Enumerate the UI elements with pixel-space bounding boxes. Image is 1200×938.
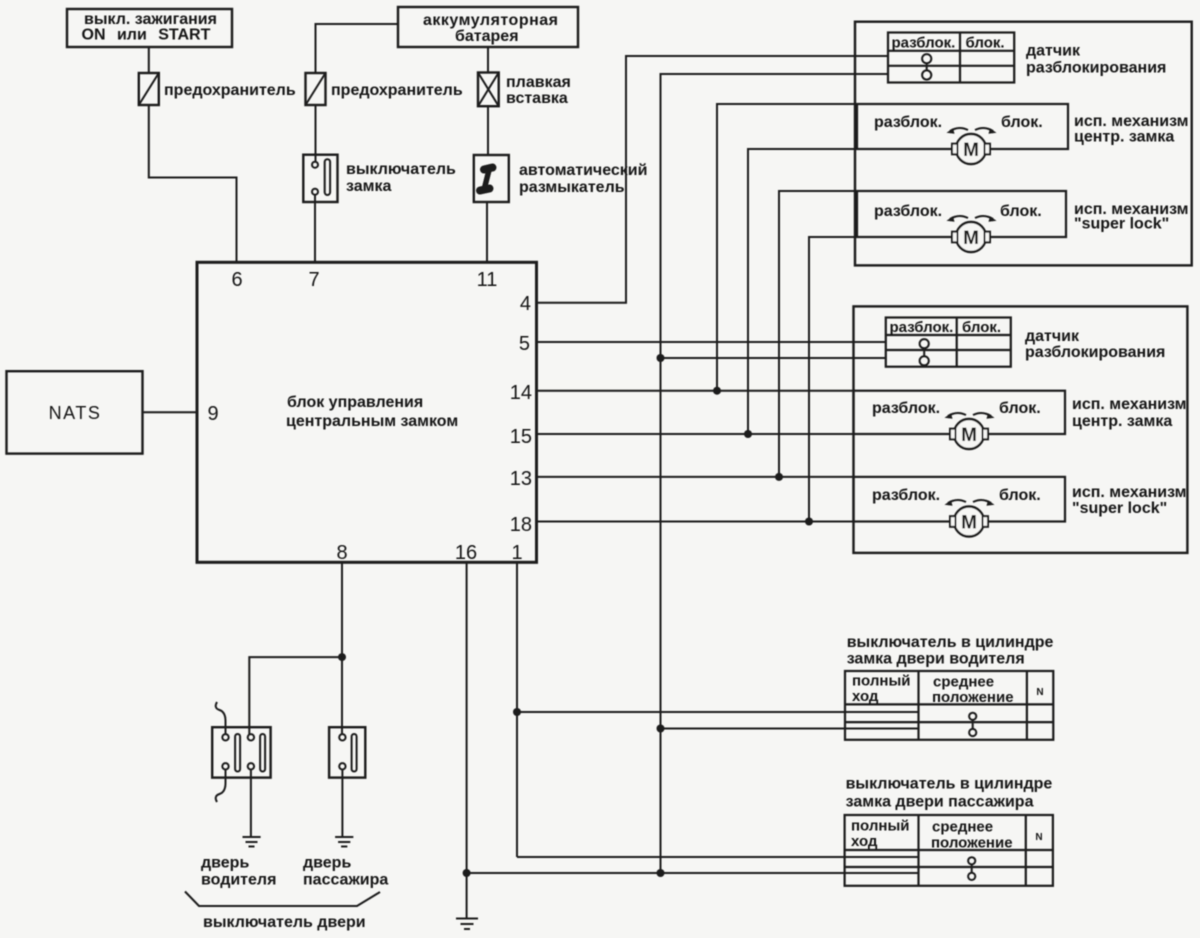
wire branch to passenger door switch xyxy=(341,657,343,734)
label датчик разблокирования (lower) xyxy=(1025,328,1165,361)
svg-text:вставка: вставка xyxy=(506,90,568,107)
svg-text:ход: ход xyxy=(852,688,879,705)
svg-text:5: 5 xyxy=(519,333,530,355)
svg-text:положение: положение xyxy=(932,689,1014,706)
label исп. механизм центр. замка (upper) xyxy=(1074,113,1189,146)
svg-text:15: 15 xyxy=(510,426,532,448)
svg-text:дверь: дверь xyxy=(201,855,249,872)
label дверь пассажира xyxy=(303,855,388,889)
svg-text:6: 6 xyxy=(231,269,242,291)
svg-text:дверь: дверь xyxy=(303,855,351,872)
wire lock switch to pin 7 xyxy=(314,195,316,262)
fusible link F3 (плавкая вставка) xyxy=(478,73,571,108)
wire ground riser to driver cylinder table row 2 xyxy=(661,728,919,730)
svg-text:9: 9 xyxy=(207,403,218,425)
ground (driver door) xyxy=(243,837,261,847)
svg-text:центр. замка: центр. замка xyxy=(1074,129,1174,146)
label дверь водителя xyxy=(201,855,276,889)
NATS box xyxy=(7,371,143,453)
svg-text:разблок.: разблок. xyxy=(874,114,942,131)
node: pin 1 branch to driver cylinder row 1 xyxy=(513,708,521,716)
ground bus wire to passenger cylinder table row 2 xyxy=(467,872,919,874)
ground (passenger door) xyxy=(335,837,353,847)
svg-text:замка двери водителя: замка двери водителя xyxy=(847,651,1025,668)
riser pin 18 to upper actuator M2 motor xyxy=(809,237,953,522)
svg-text:батарея: батарея xyxy=(455,28,519,45)
svg-text:блок.: блок. xyxy=(1000,203,1042,220)
wire battery to fuse F2 xyxy=(316,24,399,73)
node: pin 16 ground bus junction xyxy=(463,869,471,877)
svg-text:блок.: блок. xyxy=(999,487,1041,504)
svg-text:блок.: блок. xyxy=(962,319,1001,336)
upper actuator M2 (исп. механизм "super lock") xyxy=(857,191,1066,252)
label выключатель в цилиндре замка двери пассажира xyxy=(846,776,1053,811)
svg-text:14: 14 xyxy=(510,382,532,404)
svg-text:выключатель в цилиндре: выключатель в цилиндре xyxy=(847,634,1054,651)
control unit box (блок управления центральным замком) xyxy=(197,262,537,562)
svg-text:М: М xyxy=(963,228,979,249)
svg-text:11: 11 xyxy=(477,269,498,291)
svg-text:"super lock": "super lock" xyxy=(1074,216,1169,233)
wire NATS to pin 9 xyxy=(143,411,198,413)
wire driver switch to ground xyxy=(250,770,252,838)
fuse F2 (предохранитель) xyxy=(306,73,463,105)
svg-text:М: М xyxy=(961,513,977,534)
wire pin 14 to lower actuator M1 top xyxy=(537,390,854,392)
svg-text:N: N xyxy=(1035,832,1042,843)
svg-text:замка двери пассажира: замка двери пассажира xyxy=(846,794,1034,811)
svg-text:исп. механизм: исп. механизм xyxy=(1072,484,1187,501)
svg-text:разблок.: разблок. xyxy=(872,487,940,504)
node: pin 14 riser junction xyxy=(713,387,721,395)
svg-text:NATS: NATS xyxy=(49,403,102,423)
wire pin 8 down xyxy=(341,562,343,734)
svg-text:среднее: среднее xyxy=(933,674,994,691)
node: ground riser to driver cylinder row 2 xyxy=(657,725,665,733)
upper assembly box xyxy=(855,22,1192,266)
label датчик разблокирования (upper) xyxy=(1026,43,1166,77)
lower unlock sensor table (разблок/блок) xyxy=(886,318,1011,367)
lower actuator M2 (исп. механизм "super lock") xyxy=(854,477,1066,537)
ground (pin 16) xyxy=(456,919,478,930)
riser pin 15 to upper actuator M1 motor xyxy=(748,149,953,434)
svg-text:исп. механизм: исп. механизм xyxy=(1072,396,1187,413)
wire pin 1 down xyxy=(516,562,518,857)
label исп. механизм "super lock" (upper) xyxy=(1074,201,1189,233)
svg-text:водителя: водителя xyxy=(201,872,276,889)
svg-text:центр. замка: центр. замка xyxy=(1072,413,1172,430)
svg-text:полный: полный xyxy=(851,818,909,835)
svg-text:положение: положение xyxy=(931,835,1013,852)
svg-text:полный: полный xyxy=(852,673,910,690)
svg-text:размыкатель: размыкатель xyxy=(519,179,625,196)
svg-text:разблокирования: разблокирования xyxy=(1025,344,1165,361)
ground riser wire (upper sensor row 2 down to ground bus) xyxy=(661,74,889,873)
node: pin 15 riser junction xyxy=(744,430,752,438)
svg-text:выключатель: выключатель xyxy=(346,161,456,178)
riser pin 13 to upper actuator M2 top xyxy=(779,191,857,477)
lock switch (выключатель замка) xyxy=(303,155,456,202)
svg-text:датчик: датчик xyxy=(1026,43,1081,60)
passenger lock cylinder switch table xyxy=(845,815,1053,886)
svg-text:8: 8 xyxy=(336,542,347,564)
svg-text:предохранитель: предохранитель xyxy=(331,82,463,99)
svg-text:центральным замком: центральным замком xyxy=(286,413,458,430)
node: ground riser meets ground bus xyxy=(657,869,665,877)
wire F2 to lock switch xyxy=(315,105,317,162)
wire pin 16 down to ground xyxy=(466,562,468,918)
fuse F1 (предохранитель) xyxy=(139,73,296,105)
node: pin 13 riser junction xyxy=(775,473,783,481)
svg-text:ход: ход xyxy=(851,833,878,850)
svg-text:разблок.: разблок. xyxy=(874,203,942,220)
wire pin 1 to passenger cylinder table row 1 xyxy=(517,856,919,858)
wire F1 to pin 6 xyxy=(149,105,237,262)
wire pin 1 to driver cylinder table row 1 xyxy=(517,711,919,713)
wire stub with break (bottom of driver switch) xyxy=(216,770,226,803)
label исп. механизм "super lock" (lower) xyxy=(1072,484,1187,517)
svg-text:замка: замка xyxy=(346,178,391,195)
svg-text:среднее: среднее xyxy=(932,819,993,836)
riser pin 14 to upper actuator M1 top xyxy=(717,104,857,391)
svg-text:N: N xyxy=(1036,687,1043,698)
svg-text:разблокирования: разблокирования xyxy=(1026,60,1166,77)
svg-text:18: 18 xyxy=(510,514,532,536)
svg-text:аккумуляторная: аккумуляторная xyxy=(423,12,558,29)
wire pin 13 to lower actuator M2 top xyxy=(537,476,854,478)
wire pin 18 to lower actuator M2 motor xyxy=(537,521,954,523)
svg-text:4: 4 xyxy=(520,293,531,315)
svg-text:7: 7 xyxy=(308,269,319,291)
svg-text:разблок.: разблок. xyxy=(892,35,956,52)
circuit breaker (автоматический размыкатель) xyxy=(474,155,648,202)
svg-text:ON или START: ON или START xyxy=(82,27,211,44)
brace (выключатель двери) xyxy=(185,892,380,907)
wire stub with break (top of driver switch) xyxy=(216,702,226,734)
lower assembly box xyxy=(854,306,1188,553)
lower actuator M1 (исп. механизм центр. замка) xyxy=(854,391,1066,449)
upper unlock sensor table (разблок/блок) xyxy=(888,33,1014,83)
svg-text:датчик: датчик xyxy=(1025,328,1080,345)
node: riser to lower sensor row 2 xyxy=(657,354,665,362)
passenger door switch xyxy=(329,727,365,777)
svg-text:предохранитель: предохранитель xyxy=(164,82,296,99)
label исп. механизм центр. замка (lower) xyxy=(1072,396,1187,430)
battery box (аккумуляторная батарея) xyxy=(398,7,578,47)
wire ignition to fuse F1 xyxy=(148,47,150,73)
node: pin 18 riser junction xyxy=(805,518,813,526)
svg-text:М: М xyxy=(963,140,979,161)
svg-text:М: М xyxy=(961,425,977,446)
wire F3 to circuit breaker xyxy=(487,106,489,155)
label выключатель в цилиндре замка двери водителя xyxy=(847,634,1054,668)
wire battery to fuse F3 xyxy=(487,47,489,73)
svg-text:плавкая: плавкая xyxy=(506,74,571,91)
svg-text:автоматический: автоматический xyxy=(519,162,647,179)
wire riser to lower sensor table row 2 xyxy=(661,357,886,359)
wire pin 4 to upper sensor table row 1 xyxy=(537,56,889,303)
wire passenger switch to ground xyxy=(341,770,343,838)
svg-text:блок.: блок. xyxy=(966,35,1005,52)
svg-text:выкл. зажигания: выкл. зажигания xyxy=(84,11,217,28)
svg-text:разблок.: разблок. xyxy=(872,400,940,417)
driver door switch xyxy=(212,727,270,777)
svg-text:блок управления: блок управления xyxy=(287,394,423,411)
svg-text:блок.: блок. xyxy=(999,400,1041,417)
svg-text:1: 1 xyxy=(511,542,522,564)
wire breaker to pin 11 xyxy=(486,202,488,262)
svg-text:выключатель двери: выключатель двери xyxy=(203,914,366,931)
wire pin 5 to lower sensor table row 1 xyxy=(537,341,886,343)
svg-text:16: 16 xyxy=(455,542,477,564)
svg-text:разблок.: разблок. xyxy=(890,319,954,336)
wire pin 15 to lower actuator M1 motor xyxy=(537,433,954,435)
node: pin 8 branch xyxy=(338,653,346,661)
upper actuator M1 (исп. механизм центр. замка) xyxy=(857,104,1068,164)
ignition switch box (выкл. зажигания ON или START) xyxy=(67,9,232,47)
driver lock cylinder switch table xyxy=(845,671,1053,740)
svg-text:13: 13 xyxy=(510,468,532,490)
svg-text:исп. механизм: исп. механизм xyxy=(1074,113,1189,130)
svg-text:выключатель в цилиндре: выключатель в цилиндре xyxy=(846,776,1053,793)
svg-text:"super lock": "super lock" xyxy=(1072,500,1167,517)
wire branch to driver door switch xyxy=(249,657,342,734)
svg-text:пассажира: пассажира xyxy=(303,872,388,889)
svg-text:блок.: блок. xyxy=(1001,114,1043,131)
